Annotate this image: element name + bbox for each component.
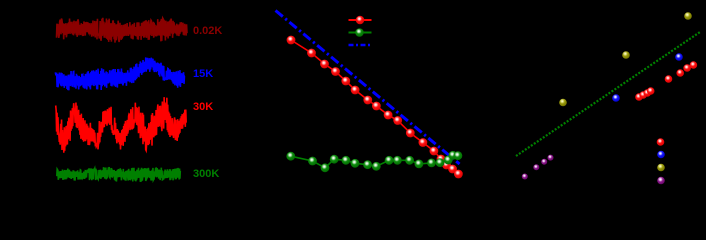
noise trace 30K (red) (56, 97, 187, 153)
right panel: blue spheres (612, 53, 683, 102)
svg-text:30K: 30K (193, 101, 213, 113)
middle panel: blue dash-dot guide line (276, 11, 460, 165)
right panel: purple spheres (522, 155, 554, 180)
svg-text:300K: 300K (193, 168, 219, 180)
right panel legend column (657, 138, 665, 184)
middle panel legend: green entry (349, 28, 372, 37)
middle panel legend: blue dashed entry (349, 44, 371, 46)
middle panel: green data series (286, 151, 462, 172)
middle panel legend: red entry (349, 16, 372, 25)
right panel: red cluster (635, 87, 654, 101)
noise trace 0.02K (dark red) (57, 18, 188, 43)
right panel: olive spheres (559, 12, 692, 106)
right panel: red singles (665, 61, 698, 83)
svg-text:15K: 15K (193, 68, 213, 80)
svg-text:0.02K: 0.02K (193, 25, 222, 37)
right panel: green dotted guide line (516, 32, 700, 156)
middle panel: red data series (287, 36, 463, 179)
noise trace 300K (green) (57, 167, 181, 182)
noise trace 15K (blue) (55, 57, 185, 90)
